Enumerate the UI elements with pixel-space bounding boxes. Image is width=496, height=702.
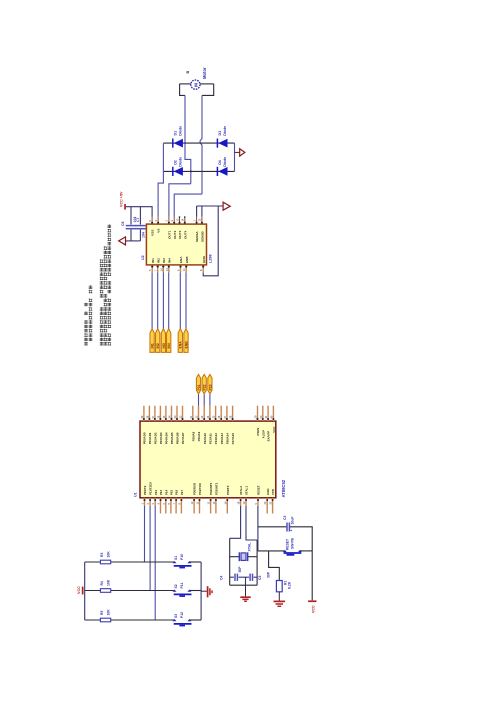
- svg-text:S3: S3: [174, 614, 178, 618]
- wire: keys ground rail: [200, 562, 202, 620]
- pin 38 P01/AD1 of U1 (top stub): [148, 406, 150, 421]
- wire: decoupling cap column 1: [130, 207, 132, 225]
- svg-text:P11: P11: [180, 583, 184, 589]
- svg-text:P33/INT1: P33/INT1: [215, 482, 219, 495]
- pin 27 P26/A14 of U1 (top stub): [226, 406, 228, 421]
- capacitor C5: [246, 576, 250, 578]
- pin 9 VSS of U2 (top stub): [151, 217, 153, 225]
- svg-text:XTAL2: XTAL2: [239, 486, 243, 495]
- svg-text:SW-PB: SW-PB: [290, 537, 294, 549]
- pin 3 OUT2 of U2 (top stub): [173, 217, 175, 225]
- svg-text:Diode: Diode: [179, 126, 183, 136]
- wire: crystal left rail: [229, 538, 231, 585]
- wire: key row S1: [85, 561, 175, 563]
- svg-text:P11/T2EX: P11/T2EX: [149, 482, 153, 495]
- power port VCC at reset: [308, 600, 316, 602]
- svg-text:U2: U2: [141, 255, 145, 260]
- svg-text:RESET: RESET: [285, 539, 289, 550]
- svg-text:SENSB: SENSB: [201, 231, 205, 242]
- svg-text:P12: P12: [180, 612, 184, 618]
- pin 24 P23/A11 of U1 (top stub): [209, 406, 211, 421]
- pin 7 P16 of U1 (bottom stub): [175, 498, 177, 514]
- svg-text:Diode: Diode: [223, 126, 227, 136]
- wire: motor lead A (to node2): [185, 95, 191, 183]
- svg-text:P12: P12: [154, 489, 158, 495]
- pin 37 P02/AD2 of U1 (top stub): [154, 406, 156, 421]
- svg-text:AT89C52: AT89C52: [281, 479, 286, 497]
- wire: SENSB up to ground bar: [201, 206, 203, 217]
- capacitor C4: [230, 576, 234, 578]
- svg-text:OUT2: OUT2: [173, 230, 177, 239]
- pin 2 P11/T2EX of U1 (bottom stub): [149, 498, 151, 506]
- svg-text:C5: C5: [258, 576, 262, 580]
- pin 7 IN2 of U2 (bottom stub): [157, 265, 159, 273]
- wire: button right to VCC column: [300, 550, 312, 552]
- svg-text:R3: R3: [100, 553, 104, 557]
- svg-text:4: 4: [154, 220, 158, 222]
- svg-text:ENB: ENB: [184, 341, 188, 349]
- svg-text:P25/A13: P25/A13: [220, 433, 224, 445]
- svg-text:P31/TXD: P31/TXD: [198, 483, 202, 495]
- svg-text:R4: R4: [100, 581, 104, 585]
- resistor R1: [276, 581, 282, 592]
- pin 10 P30/RXD of U1 (bottom stub): [193, 498, 195, 514]
- svg-text:P05/AD5: P05/AD5: [170, 432, 174, 444]
- svg-text:S1: S1: [174, 556, 178, 560]
- power port VCC for keys: [82, 587, 84, 595]
- port P21: [196, 374, 200, 394]
- svg-text:IN3: IN3: [162, 343, 166, 348]
- svg-text:15: 15: [198, 218, 202, 221]
- svg-text:VCC: VCC: [272, 426, 276, 433]
- port P22: [202, 374, 206, 394]
- port ENA: [178, 329, 182, 353]
- wire: motor lead B with hop over row1: [200, 95, 202, 194]
- svg-text:8.2K: 8.2K: [287, 581, 291, 589]
- svg-text:P14: P14: [164, 489, 168, 495]
- svg-text:Diode: Diode: [223, 157, 227, 167]
- wire: P11 to key row 2: [149, 506, 151, 591]
- svg-text:Motor: Motor: [202, 67, 207, 79]
- svg-text:P24/A12: P24/A12: [214, 433, 218, 445]
- pin 12 P32/INT0 of U1 (bottom stub): [210, 498, 212, 514]
- diode D1: [172, 139, 174, 148]
- svg-text:P13: P13: [159, 489, 163, 495]
- wire: bridge row 1: [163, 142, 234, 144]
- wire: U2 IN2 to port: [157, 273, 159, 329]
- pin 39 P00/AD0 of U1 (top stub): [143, 406, 145, 421]
- capacitor C6: [126, 225, 137, 227]
- pin 12 IN4 of U2 (bottom stub): [168, 265, 170, 273]
- wire: OUT1 to bridge node2: [169, 184, 191, 217]
- diode D3: [216, 139, 218, 148]
- svg-text:OUT4: OUT4: [183, 230, 187, 239]
- port IN3: [161, 329, 165, 353]
- svg-text:P01/AD1: P01/AD1: [148, 432, 152, 444]
- wire: caps midpoint to ground: [245, 577, 247, 585]
- pin 2 OUT1 of U2 (top stub): [168, 217, 170, 225]
- wire: XTAL2 branch: [230, 506, 241, 538]
- power port (open arrow) at sense ground: [223, 202, 230, 210]
- svg-text:ALE/P: ALE/P: [261, 430, 265, 439]
- pin 40 VCC of U1 (top stub): [272, 406, 274, 421]
- pin 30 ALE/P of U1 (top stub): [262, 406, 264, 421]
- pin 28 P27/A15 of U1 (top stub): [232, 406, 234, 421]
- motor B1: [191, 80, 200, 89]
- pin 6 P15 of U1 (bottom stub): [170, 498, 172, 514]
- wire: jog to R1: [269, 551, 280, 581]
- ground port (open arrow) left of caps: [119, 237, 126, 245]
- diode D2: [172, 167, 174, 176]
- diode D4: [216, 167, 218, 176]
- pin 20 GND of U1 (bottom stub): [266, 498, 268, 514]
- wire: U2 IN1 to port: [151, 273, 153, 329]
- svg-text:10K: 10K: [107, 551, 111, 558]
- svg-text:VSS: VSS: [151, 230, 155, 236]
- svg-text:VPD: VPD: [271, 489, 275, 495]
- svg-text:P04/AD4: P04/AD4: [165, 432, 169, 444]
- svg-text:IN4: IN4: [167, 343, 171, 348]
- svg-text:GND: GND: [266, 489, 270, 495]
- port IN1: [150, 329, 154, 353]
- pin 1 P10/T2 of U1 (bottom stub): [144, 498, 146, 506]
- svg-text:GND: GND: [202, 255, 206, 263]
- wire: key row S3: [85, 619, 175, 621]
- resistor R4: [100, 589, 110, 593]
- port IN2: [156, 329, 160, 353]
- svg-text:P27/A15: P27/A15: [231, 433, 235, 445]
- wire: U2 ENB to port: [185, 273, 187, 329]
- svg-text:P30/RXD: P30/RXD: [193, 483, 197, 495]
- wire: U1 P21 to port: [198, 394, 200, 406]
- wire: motor frame T outline: [180, 83, 191, 85]
- svg-text:D4: D4: [218, 160, 222, 165]
- pin 33 P06/AD6 of U1 (top stub): [176, 406, 178, 421]
- svg-text:P21/A9: P21/A9: [197, 431, 201, 441]
- pin 8 GND of U2 (bottom stub): [202, 265, 204, 273]
- svg-text:D1: D1: [174, 131, 178, 136]
- pin 5 P14 of U1 (bottom stub): [165, 498, 167, 514]
- svg-text:S2: S2: [174, 584, 178, 588]
- svg-text:9: 9: [148, 220, 152, 222]
- pin 5 IN1 of U2 (bottom stub): [151, 265, 153, 273]
- wire: OUT2 to motor lead B: [174, 194, 202, 217]
- wire: P12 to key row 3: [154, 506, 156, 620]
- IC U1 AT89C52 body: [140, 421, 276, 498]
- svg-text:R5: R5: [100, 611, 104, 615]
- svg-text:P26/A14: P26/A14: [226, 433, 230, 445]
- svg-text:P22: P22: [203, 384, 207, 390]
- svg-text:VCC: VCC: [77, 586, 81, 594]
- pin 11 P31/TXD of U1 (bottom stub): [199, 498, 201, 514]
- resistor R5: [100, 618, 110, 622]
- push button S1: [173, 561, 177, 563]
- wire: XTAL1 branch: [246, 506, 257, 540]
- wire: U1 P22 to port: [203, 394, 205, 406]
- svg-text:P32/INT0: P32/INT0: [209, 482, 213, 495]
- svg-text:Diode: Diode: [179, 157, 183, 167]
- wire: U1 P23 to port: [209, 394, 211, 406]
- pin 29 PSEN of U1 (top stub): [257, 406, 259, 421]
- push button S4 (reset): [283, 550, 287, 552]
- svg-text:3: 3: [170, 220, 174, 222]
- junction node2 on row2: [190, 170, 192, 172]
- pin 26 P25/A13 of U1 (top stub): [220, 406, 222, 421]
- svg-text:P06/AD6: P06/AD6: [176, 432, 180, 444]
- push button S3: [173, 619, 177, 621]
- wire: bridge right rail (GND): [234, 143, 236, 171]
- wire: keys VCC rail: [84, 562, 86, 620]
- wire: crystal right rail: [256, 540, 258, 585]
- capacitor C3 electrolytic: [286, 523, 288, 532]
- pin 22 P21/A9 of U1 (top stub): [198, 406, 200, 421]
- svg-text:C3: C3: [283, 516, 287, 520]
- wire: decoupling cap column 2: [139, 207, 141, 225]
- capacitor C7: [135, 225, 146, 227]
- notes text block: [84, 342, 88, 344]
- pin 8 P17 of U1 (bottom stub): [180, 498, 182, 514]
- svg-text:P07/AD7: P07/AD7: [181, 432, 185, 444]
- svg-text:P03/AD3: P03/AD3: [159, 432, 163, 444]
- ground symbol at keys: [207, 586, 209, 597]
- svg-text:EA/VPP: EA/VPP: [267, 431, 271, 442]
- pin 25 P24/A12 of U1 (top stub): [215, 406, 217, 421]
- pin 18 XTAL2 of U1 (bottom stub): [240, 498, 242, 506]
- pin 19 XTAL1 of U1 (bottom stub): [245, 498, 247, 506]
- svg-text:ENB: ENB: [185, 256, 189, 263]
- pin 35 P04/AD4 of U1 (top stub): [165, 406, 167, 421]
- wire: VCC rail to VSS pin: [126, 207, 152, 217]
- pin 31 EA/VPP of U1 (top stub): [267, 406, 269, 421]
- pin 23 P22/A10 of U1 (top stub): [203, 406, 205, 421]
- ground symbol at crystal: [240, 596, 250, 598]
- pin 6 ENA of U2 (bottom stub): [180, 265, 182, 273]
- wire: reset to button: [258, 550, 285, 552]
- svg-text:P34/T0: P34/T0: [226, 485, 230, 495]
- pin 34 P05/AD5 of U1 (top stub): [171, 406, 173, 421]
- svg-text:IN2: IN2: [156, 343, 160, 348]
- svg-text:OUT3: OUT3: [178, 230, 182, 239]
- wire: RESET net: [257, 506, 259, 551]
- wire: bridge left rail (+V): [158, 143, 163, 217]
- wire: sense ground bar: [197, 205, 224, 207]
- svg-text:PSEN: PSEN: [256, 428, 260, 436]
- pin 14 P34/T0 of U1 (bottom stub): [226, 498, 228, 514]
- svg-text:XTAL: XTAL: [247, 542, 251, 552]
- pin 15 SENSB of U2 (top stub): [201, 217, 203, 225]
- pin 13 OUT3 of U2 (top stub): [179, 217, 181, 225]
- svg-text:10uF: 10uF: [291, 517, 295, 525]
- wire: bridge row 2: [163, 170, 234, 172]
- svg-text:L298: L298: [209, 254, 213, 263]
- svg-text:P17: P17: [180, 489, 184, 495]
- pin 1 SENSA of U2 (top stub): [196, 217, 198, 225]
- wire: SENSA up to ground bar: [196, 206, 198, 217]
- svg-text:C7: C7: [136, 217, 140, 222]
- wire: R1 to ground: [278, 592, 280, 601]
- svg-text:VCC +5V: VCC +5V: [120, 191, 124, 207]
- wire: U2 IN3 to port: [162, 273, 164, 329]
- wire: C3 to VCC column: [290, 527, 312, 600]
- pin 13 P33/INT1 of U1 (bottom stub): [215, 498, 217, 514]
- svg-text:P23/A11: P23/A11: [209, 433, 213, 444]
- wire: P10 to key row 1: [144, 506, 146, 562]
- pin 4 VS of U2 (top stub): [157, 217, 159, 225]
- svg-text:14: 14: [181, 218, 185, 221]
- svg-text:P10/T2: P10/T2: [143, 485, 147, 495]
- svg-text:B: B: [186, 71, 190, 74]
- svg-text:104: 104: [142, 232, 146, 238]
- svg-text:10K: 10K: [107, 609, 111, 616]
- svg-text:P21: P21: [197, 384, 201, 390]
- pin 32 P07/AD7 of U1 (top stub): [182, 406, 184, 421]
- wire: U2 ENA to port: [179, 273, 181, 329]
- svg-text:U1: U1: [134, 492, 138, 497]
- svg-text:2: 2: [165, 220, 169, 222]
- svg-text:13: 13: [175, 218, 179, 221]
- svg-text:D2: D2: [174, 160, 178, 165]
- svg-text:IN4: IN4: [167, 258, 171, 263]
- pin 35 VPD of U1 (bottom stub): [272, 498, 274, 514]
- svg-text:P02/AD2: P02/AD2: [154, 432, 158, 444]
- svg-text:RESET: RESET: [257, 485, 261, 495]
- wire: branch to C3: [258, 526, 287, 528]
- svg-text:XTAL1: XTAL1: [245, 486, 249, 495]
- svg-text:P20/A8: P20/A8: [191, 431, 195, 441]
- wire: key row S2: [85, 590, 175, 592]
- svg-text:SENSA: SENSA: [195, 231, 199, 242]
- svg-text:ENA: ENA: [179, 256, 183, 263]
- wire: cap ground rail: [126, 240, 141, 242]
- svg-text:10K: 10K: [107, 579, 111, 586]
- wire: ground tap: [201, 590, 207, 592]
- resistor R3: [100, 560, 110, 564]
- svg-text:P22/A10: P22/A10: [203, 433, 207, 445]
- svg-text:ENA: ENA: [179, 341, 183, 349]
- wire: ground loop to GND pin of U2: [203, 206, 218, 276]
- svg-text:P10: P10: [180, 554, 184, 560]
- push button S2: [173, 590, 177, 592]
- pin 21 P20/A8 of U1 (top stub): [192, 406, 194, 421]
- svg-text:D3: D3: [218, 131, 222, 136]
- pin 4 P13 of U1 (bottom stub): [160, 498, 162, 514]
- port ENB: [184, 329, 188, 353]
- svg-text:IN2: IN2: [156, 258, 160, 263]
- svg-text:1: 1: [192, 220, 196, 222]
- pin 11 ENB of U2 (bottom stub): [185, 265, 187, 273]
- wire: U2 IN4 to port: [168, 273, 170, 329]
- svg-text:M: M: [193, 83, 198, 87]
- svg-text:VCC: VCC: [312, 605, 316, 613]
- wire: stub to power port: [235, 151, 240, 153]
- pin 36 P03/AD3 of U1 (top stub): [159, 406, 161, 421]
- pin 10 IN3 of U2 (bottom stub): [162, 265, 164, 273]
- svg-text:P16: P16: [175, 489, 179, 495]
- svg-text:VS: VS: [157, 229, 161, 233]
- ground symbol at R1: [274, 600, 286, 602]
- svg-text:IN1: IN1: [151, 258, 155, 263]
- wire: crystal bottom rail: [230, 584, 257, 586]
- pin 14 OUT4 of U2 (top stub): [184, 217, 186, 225]
- svg-text:C4: C4: [220, 576, 224, 580]
- pin 3 P12 of U1 (bottom stub): [154, 498, 156, 506]
- crystal Y1: [230, 556, 239, 558]
- port IN4: [167, 329, 171, 353]
- power port (open arrow) at bridge right: [240, 149, 245, 156]
- port P23: [208, 374, 212, 394]
- svg-text:OUT1: OUT1: [168, 230, 172, 239]
- svg-text:P15: P15: [170, 489, 174, 495]
- svg-text:IN3: IN3: [162, 258, 166, 263]
- svg-text:IN1: IN1: [151, 343, 155, 348]
- svg-text:30P: 30P: [267, 571, 271, 578]
- svg-text:P23: P23: [208, 384, 212, 390]
- svg-text:C6: C6: [121, 221, 125, 226]
- IC U2 L298 body: [146, 224, 206, 265]
- svg-text:30P: 30P: [238, 566, 242, 573]
- power port VCC +5V for L298 logic: [124, 204, 126, 210]
- svg-text:P00/AD0: P00/AD0: [143, 432, 147, 444]
- pin 9 RESET of U1 (bottom stub): [257, 498, 259, 506]
